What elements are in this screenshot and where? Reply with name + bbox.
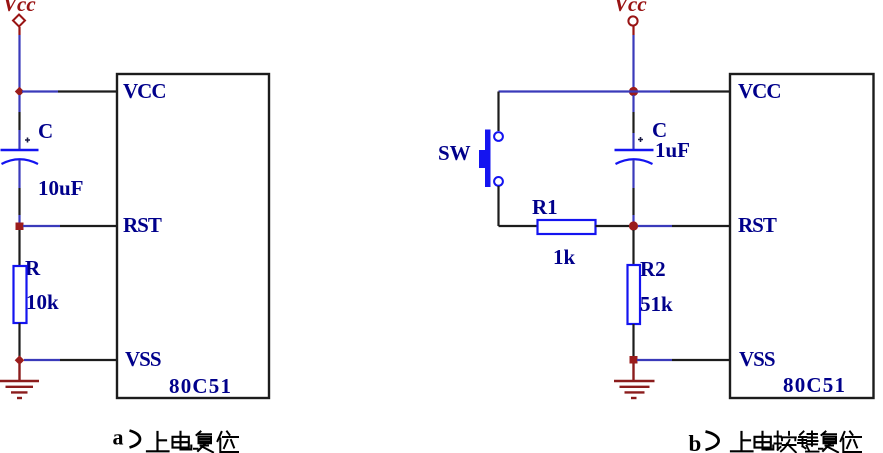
wire VSS rail (a) — [24, 359, 60, 361]
wire RST rail (b) — [638, 225, 672, 227]
wire VCC rail right (b) — [634, 90, 671, 92]
pin VSS (a) — [60, 359, 117, 361]
switch SW terminal top — [494, 132, 503, 141]
wire VCC rail (a) — [22, 90, 58, 92]
svg-text:VSS: VSS — [125, 347, 161, 371]
wire plate to pin (b) — [632, 160, 634, 188]
ground stem (b) — [632, 363, 634, 381]
caption b paren — [706, 432, 719, 450]
wire pin to plate (b) — [632, 133, 634, 149]
wire Vcc stub (a) — [18, 27, 20, 35]
wire R1 to RST node (b) — [596, 225, 630, 227]
Vcc terminal (a) — [13, 15, 25, 27]
pin capacitor bottom (a) — [18, 188, 20, 215]
capacitor C curved plate (a) — [2, 159, 39, 164]
svg-text:Vcc: Vcc — [3, 0, 36, 16]
wire pin to plate (a) — [18, 130, 20, 149]
node VCC junction (b) — [629, 87, 638, 96]
pin VCC (a) — [58, 90, 117, 92]
wire plate to pin (a) — [18, 160, 20, 188]
caption b text 上电按键复位 — [731, 432, 861, 453]
svg-text:1k: 1k — [553, 245, 576, 269]
svg-text:80C51: 80C51 — [783, 373, 846, 397]
svg-text:C: C — [38, 119, 53, 143]
switch SW bar — [485, 130, 491, 188]
svg-text:b: b — [689, 431, 702, 453]
pin capacitor bottom (b) — [632, 188, 634, 215]
wire VSS rail (b) — [637, 359, 672, 361]
resistor R1 body — [538, 220, 596, 234]
svg-text:RST: RST — [123, 213, 162, 237]
node RST junction (b) — [629, 221, 638, 230]
wire Vcc stub (b) — [632, 26, 634, 35]
switch SW terminal bottom — [494, 177, 503, 186]
pin RST (a) — [60, 225, 117, 227]
node VSS junction (a) — [15, 355, 25, 365]
wire switch bottom down (b) — [497, 186, 499, 226]
caption a text 上电复位 — [147, 432, 238, 453]
svg-text:R1: R1 — [532, 195, 558, 219]
wire capacitor top (b) — [632, 95, 634, 112]
caption a paren — [130, 431, 141, 448]
wire RST rail (a) — [23, 225, 60, 227]
capacitor C plus sign (a) — [25, 138, 30, 143]
svg-text:Vcc: Vcc — [614, 0, 647, 16]
pin RST (b) — [672, 225, 730, 227]
pin resistor R top (a) — [18, 230, 20, 266]
svg-text:80C51: 80C51 — [169, 374, 232, 398]
svg-text:VSS: VSS — [739, 347, 775, 371]
pin capacitor top (b) — [632, 112, 634, 133]
pin VSS (b) — [672, 359, 730, 361]
svg-text:a: a — [113, 425, 124, 450]
svg-text:SW: SW — [438, 141, 471, 165]
node VCC junction (a) — [15, 87, 24, 96]
ground (a) — [0, 381, 39, 398]
svg-text:VCC: VCC — [738, 79, 781, 103]
svg-text:R2: R2 — [640, 257, 666, 281]
pin resistor R2 bottom (b) — [632, 324, 634, 356]
node RST junction (a) — [16, 223, 24, 231]
svg-text:10k: 10k — [26, 290, 59, 314]
ground (b) — [614, 381, 655, 398]
node VSS junction (b) — [630, 356, 638, 364]
pin resistor R bottom (a) — [18, 323, 20, 357]
wire junction to capacitor (a) — [18, 95, 20, 112]
svg-text:RST: RST — [738, 213, 777, 237]
op-amp U1 chip 80C51 box (a) — [117, 74, 269, 398]
capacitor C top plate (b) — [615, 149, 654, 151]
wire Vcc to VCC node (b) — [632, 35, 634, 89]
wire to RST node (b) — [632, 215, 634, 226]
resistor R2 body — [628, 265, 641, 324]
svg-text:1uF: 1uF — [655, 138, 690, 162]
Vcc terminal (b) — [628, 16, 637, 25]
pin VCC (b) — [670, 90, 730, 92]
pin capacitor top (a) — [18, 112, 20, 130]
svg-text:10uF: 10uF — [38, 176, 84, 200]
op-amp U2 chip 80C51 box (b) — [730, 74, 874, 398]
wire VCC rail left (b) — [499, 90, 634, 92]
switch SW knob — [479, 150, 485, 168]
ground stem (a) — [18, 364, 20, 381]
resistor R body (a) — [14, 266, 27, 323]
capacitor C plus sign (b) — [638, 137, 643, 142]
pin resistor R2 top (b) — [632, 230, 634, 265]
svg-text:51k: 51k — [640, 292, 673, 316]
wire switch to R1 (b) — [499, 225, 538, 227]
capacitor C top plate (a) — [1, 149, 39, 151]
wire rail down to switch (b) — [497, 92, 499, 132]
wire to RST node (a) — [18, 215, 20, 226]
capacitor C curved plate (b) — [616, 159, 653, 164]
svg-text:VCC: VCC — [123, 79, 166, 103]
wire Vcc to VCC node (a) — [18, 35, 20, 89]
